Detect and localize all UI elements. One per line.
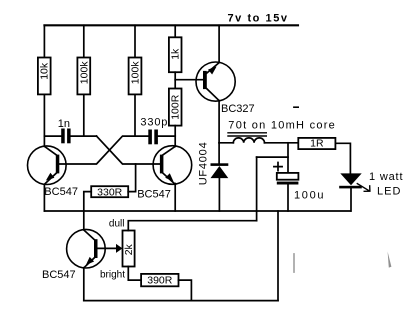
svg-text:bright: bright xyxy=(100,269,125,280)
wire 2k top to dull node xyxy=(128,221,256,231)
transistor Q3 BC547 (bottom, mirrored) xyxy=(42,229,105,281)
faint mark right xyxy=(388,252,392,268)
wire 1R to LED xyxy=(335,143,350,173)
capacitor 330p xyxy=(140,116,175,144)
wire 330R right up to Q2 base xyxy=(128,164,135,192)
svg-text:100k: 100k xyxy=(79,61,91,85)
wire Q1 emitter drop xyxy=(43,185,45,212)
resistor 330R xyxy=(91,186,128,198)
svg-text:1k: 1k xyxy=(170,48,182,60)
svg-text:BC327: BC327 xyxy=(221,103,255,115)
capacitor 1n xyxy=(44,118,96,144)
svg-text:330R: 330R xyxy=(97,186,123,198)
svg-text:1 watt: 1 watt xyxy=(369,171,403,183)
wire 100k-2 bottom to cap node xyxy=(134,94,136,136)
wire Q1 base to cap2 node xyxy=(59,136,148,164)
wire 390R right down to bottom wire xyxy=(179,280,192,301)
transistor Q2 BC547 (right) xyxy=(137,146,191,201)
wire 100k-1 bottom to cap node xyxy=(83,94,85,136)
resistor 100R xyxy=(169,89,182,126)
wire 1k top drop xyxy=(174,25,176,37)
wire dull node vertical xyxy=(256,157,258,221)
wire 330R left to Q3 collector xyxy=(84,192,91,230)
diode UF4004 xyxy=(198,142,229,211)
transistor Q1 BC547 (left, mirrored) xyxy=(28,146,78,198)
resistor 100k (right) xyxy=(129,58,142,95)
wire 100k-2 top drop xyxy=(134,25,136,57)
wire 1k to 100R xyxy=(174,72,176,88)
resistor 10k xyxy=(38,58,51,95)
wire Q3 base wiper xyxy=(98,247,117,249)
svg-text:390R: 390R xyxy=(147,275,173,287)
svg-text:BC547: BC547 xyxy=(137,189,171,201)
faint mark left xyxy=(293,254,295,272)
svg-text:70t on 10mH core: 70t on 10mH core xyxy=(228,119,334,131)
svg-text:100k: 100k xyxy=(130,61,142,85)
svg-text:7v to 15v: 7v to 15v xyxy=(228,13,288,25)
wire top supply rail xyxy=(44,24,298,26)
wire bottom return xyxy=(84,300,278,302)
svg-text:1R: 1R xyxy=(310,138,324,150)
wire emitter rail xyxy=(44,210,350,212)
resistor 1k xyxy=(169,37,182,72)
wire Q2 emitter drop xyxy=(174,184,176,212)
wire Q3 emitter drop xyxy=(83,268,85,301)
wire 100R bottom to Q2 collector xyxy=(174,126,176,147)
svg-text:330p: 330p xyxy=(140,116,167,128)
potentiometer 2k xyxy=(123,231,135,267)
LED 1 watt xyxy=(339,171,402,211)
svg-text:dull: dull xyxy=(109,218,125,229)
wire 100k-1 top drop xyxy=(83,25,85,57)
wire 2k bottom to 390R xyxy=(128,267,141,281)
wire 10k top drop xyxy=(43,25,45,57)
svg-text:LED: LED xyxy=(377,186,401,198)
resistor 390R xyxy=(141,274,178,287)
wire right return vertical xyxy=(277,211,279,301)
svg-text:2k: 2k xyxy=(123,243,135,255)
svg-text:100u: 100u xyxy=(294,190,324,202)
wiper arrowhead xyxy=(116,244,123,253)
svg-text:BC547: BC547 xyxy=(42,269,76,281)
wire BC327 base lead xyxy=(175,79,203,81)
minus sign xyxy=(294,106,298,108)
wire BC327 emitter drop xyxy=(218,25,220,62)
wire 10k bottom to Q1 collector xyxy=(43,94,45,146)
inductor 70t on 10mH core xyxy=(219,119,335,143)
transistor BC327 xyxy=(196,62,255,143)
svg-text:1n: 1n xyxy=(58,118,70,130)
capacitor 100u xyxy=(257,143,324,211)
resistor 1R xyxy=(298,138,335,150)
svg-text:UF4004: UF4004 xyxy=(198,142,210,185)
resistor 100k (left) xyxy=(77,58,90,95)
svg-text:BC547: BC547 xyxy=(44,186,78,198)
svg-text:10k: 10k xyxy=(39,62,51,80)
wire cross-couple cap1 to Q2 base xyxy=(97,136,160,164)
svg-text:100R: 100R xyxy=(170,94,182,120)
